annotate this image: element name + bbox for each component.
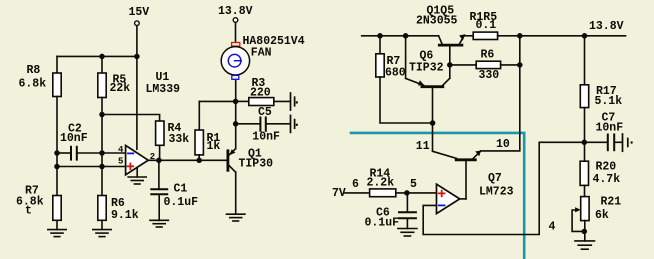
capacitor C7 (584, 112, 623, 151)
capacitor C2 (57, 123, 102, 160)
svg-text:4: 4 (549, 221, 556, 234)
resistor R7 680 (376, 36, 406, 80)
wire top rail (57, 55, 137, 57)
svg-text:Q7: Q7 (488, 172, 502, 185)
connector J2 (C5 output) (291, 115, 298, 132)
svg-text:R8: R8 (27, 64, 41, 77)
svg-text:11: 11 (416, 140, 430, 153)
svg-text:10nF: 10nF (60, 132, 88, 145)
wire R1 bottom (198, 155, 200, 160)
svg-text:7V: 7V (332, 187, 346, 200)
ground R7 (48, 230, 66, 237)
node junction rail/R7-680 (377, 33, 383, 39)
wire Q6 collector to Q1Q5 base (449, 46, 451, 78)
svg-text:13.8V: 13.8V (218, 5, 253, 18)
transistor Q7 internal (LM723 output) (416, 138, 510, 199)
svg-text:R6: R6 (111, 197, 125, 210)
capacitor C5 (236, 106, 290, 143)
wire R7-680 bottom to Q6 base node (380, 77, 433, 123)
svg-text:6.8k: 6.8k (19, 78, 47, 91)
label U1 LM339 (146, 71, 181, 96)
node junction R6-330 right (517, 62, 523, 68)
ground op-amp U1 (128, 168, 146, 185)
svg-text:0.1uF: 0.1uF (164, 196, 199, 209)
svg-text:R21: R21 (601, 196, 622, 209)
wire node to R4 top (102, 115, 160, 122)
capacitor C6 (365, 193, 416, 230)
wire 15V vertical to rail and op-amp U1 supply pin (136, 26, 138, 150)
svg-text:6: 6 (352, 178, 359, 191)
svg-text:LM723: LM723 (479, 186, 514, 199)
wire R1 top to fan node (199, 100, 235, 102)
node junction R5/R4 wire (99, 112, 105, 118)
wire R5 bottom down to R6 (101, 98, 103, 196)
svg-text:10nF: 10nF (252, 131, 280, 144)
resistor R6 (98, 196, 139, 230)
svg-text:TIP30: TIP30 (239, 158, 274, 171)
svg-text:15V: 15V (129, 6, 150, 19)
transistor Q1 TIP30 (228, 148, 273, 173)
resistor R14 2.2k (344, 167, 436, 196)
node junction R21 wiper (582, 229, 588, 235)
svg-text:22k: 22k (110, 82, 131, 95)
resistor R6 330 (450, 49, 520, 82)
wire R20 bottom to R21 top (584, 185, 586, 196)
svg-text:C5: C5 (258, 106, 272, 119)
node junction x102/y166.5 (99, 164, 105, 170)
capacitor C1 (151, 160, 198, 220)
node junction fan/C5 (233, 121, 239, 127)
wire Q1 emitter up to fan (235, 80, 237, 149)
wire C2 node to op-amp pin 4 (102, 152, 126, 154)
wire Q6 base stem down (432, 88, 434, 151)
wire output column down to pin 10 (481, 36, 520, 151)
svg-text:R6: R6 (481, 49, 495, 62)
power terminal 15V (129, 6, 150, 26)
transistor Q1Q5 2N3055 (416, 5, 465, 46)
svg-text:FAN: FAN (251, 47, 272, 60)
fan motor HA80251V4 (221, 35, 305, 79)
node junction x102/y153 (99, 150, 105, 156)
node junction rail/R17 (582, 33, 588, 39)
node junction rail/R1R5 output (517, 33, 523, 39)
svg-text:10nF: 10nF (596, 122, 624, 135)
wire op-amp output to Q1 base (148, 159, 226, 161)
resistor R7 thermistor (16, 185, 61, 230)
svg-text:2.2k: 2.2k (367, 177, 395, 190)
connector J1 (R3 output) (291, 93, 298, 110)
svg-text:220: 220 (250, 86, 271, 99)
resistor R17 5.1k (580, 36, 622, 108)
resistor R1 (195, 101, 220, 154)
connector J3 (C7 output) (623, 134, 633, 151)
resistor R8 (19, 56, 62, 96)
svg-text:4: 4 (118, 145, 124, 155)
node junction x57/y166.5 (54, 164, 60, 170)
svg-text:13.8V: 13.8V (589, 20, 624, 33)
op-amp Q7 LM723 error amp (437, 172, 514, 214)
ground C1 (150, 220, 168, 227)
ground C6 (398, 229, 417, 237)
ground R21 (575, 241, 595, 249)
wire pin5 row (57, 166, 126, 168)
transistor Q6 TIP32 (406, 50, 450, 87)
resistor R20 4.7k (580, 161, 620, 186)
node junction rail/15V (134, 54, 140, 60)
svg-text:TIP32: TIP32 (409, 61, 444, 74)
svg-text:5: 5 (118, 156, 123, 166)
svg-text:C1: C1 (174, 183, 188, 196)
wire Q1 collector to ground (235, 172, 237, 214)
svg-text:680: 680 (385, 66, 406, 79)
wire R8 bottom to node A (56, 97, 58, 196)
node junction rail/R5 (99, 54, 105, 60)
svg-text:5: 5 (410, 178, 417, 191)
node junction output/R1 (196, 158, 202, 164)
wire feedback (pin 4 net) (423, 142, 584, 234)
node junction x57/y153 (54, 150, 60, 156)
svg-text:R20: R20 (596, 161, 617, 174)
wire right top rail (output segment to 13.8V) (520, 35, 626, 37)
wire right top rail (left segment) (362, 35, 439, 37)
wire 13.8V to fan (235, 22, 237, 42)
highlight bus (cyan selection line) (351, 133, 524, 259)
power terminal 13.8V (fan) (218, 5, 253, 22)
ground Q1 (227, 214, 245, 221)
svg-text:0.1: 0.1 (476, 19, 497, 32)
svg-text:LM339: LM339 (146, 83, 181, 96)
svg-text:0.1uF: 0.1uF (365, 217, 400, 230)
node junction R17/C7/R20/feedback (582, 140, 588, 146)
resistor R5 (98, 56, 131, 97)
node junction R14/C6 (404, 190, 410, 196)
potentiometer R21 6k (572, 196, 621, 232)
svg-text:5.1k: 5.1k (595, 95, 623, 108)
resistor R3 (236, 77, 290, 106)
op-amp U1 LM339 comparator (118, 145, 155, 175)
wire op-amp output up to Q7 base (460, 198, 466, 200)
svg-text:10: 10 (496, 138, 510, 151)
svg-text:t: t (25, 205, 32, 218)
node junction output/R4/C1 (156, 158, 162, 164)
node junction rail/Q6 emitter (403, 33, 409, 39)
node junction fan/R3 (233, 99, 239, 105)
svg-text:9.1k: 9.1k (111, 209, 139, 222)
svg-text:1k: 1k (207, 140, 221, 153)
wire R21 bottom to ground (584, 221, 586, 241)
svg-text:6k: 6k (595, 209, 609, 222)
node junction Q6 collector / R6-330 (447, 62, 453, 68)
node junction Q6 base (430, 120, 436, 126)
resistor R4 (156, 121, 190, 146)
svg-text:4.7k: 4.7k (593, 173, 621, 186)
wire R4 bottom to output node (159, 145, 161, 160)
ground R6 (93, 230, 111, 237)
svg-text:2N3055: 2N3055 (416, 14, 458, 27)
svg-text:33k: 33k (169, 133, 190, 146)
wire Q6 emitter up to rail (405, 36, 407, 79)
wire R17 bottom to node (584, 108, 586, 162)
svg-text:330: 330 (479, 69, 500, 82)
resistor R1R5 0.1 (464, 11, 519, 40)
